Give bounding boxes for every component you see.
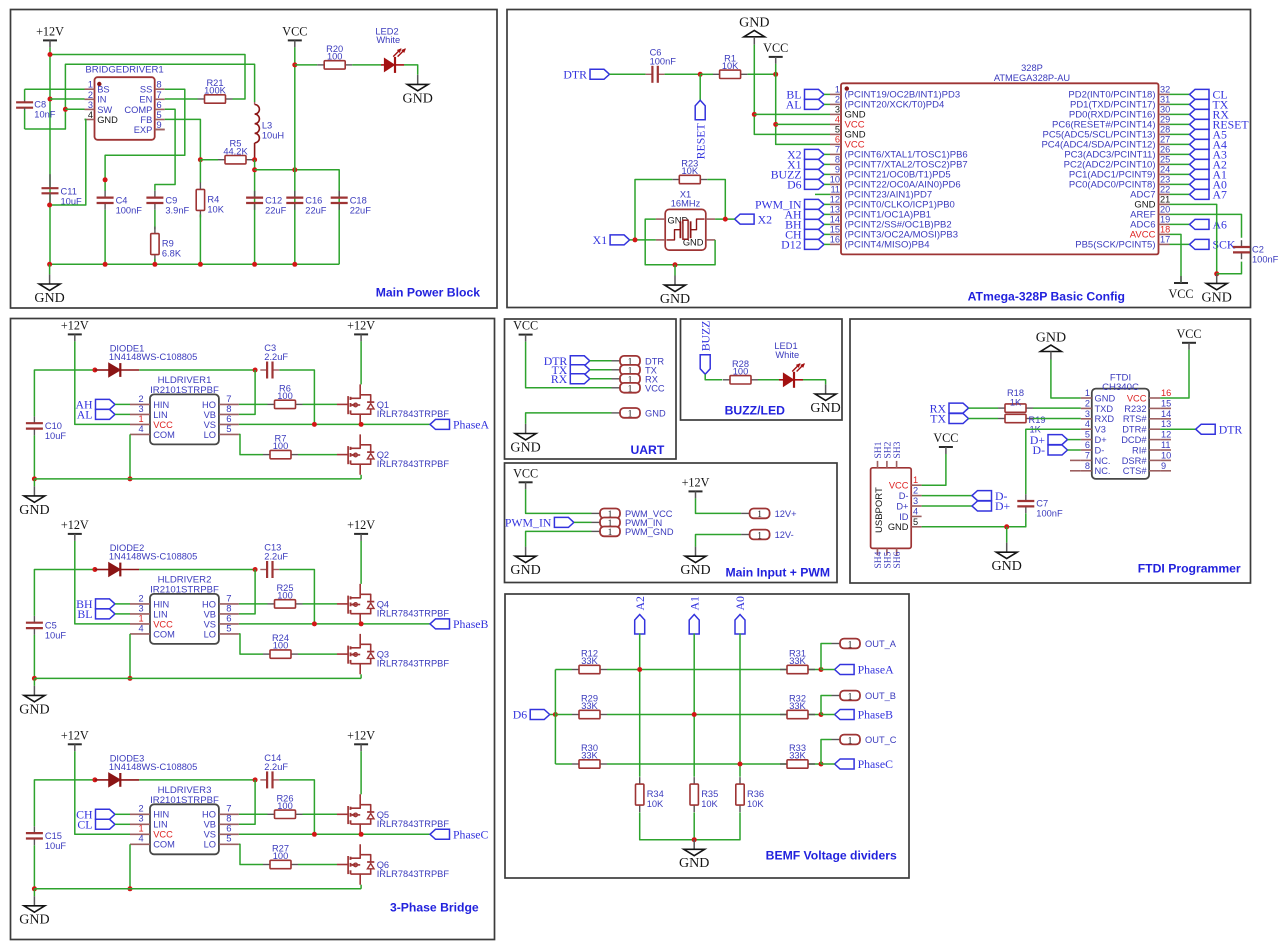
- svg-text:IR2101STRPBF: IR2101STRPBF: [150, 385, 219, 396]
- svg-text:14: 14: [1161, 409, 1171, 419]
- resistor R28: [723, 359, 758, 384]
- svg-text:6: 6: [835, 134, 840, 144]
- resistor R25: [268, 583, 303, 608]
- svg-text:LIN: LIN: [153, 410, 167, 420]
- svg-text:VS: VS: [204, 619, 216, 629]
- wire to OUT_C: [821, 740, 832, 765]
- svg-text:4: 4: [913, 506, 918, 516]
- wire to ground sym: [49, 264, 51, 274]
- svg-text:9: 9: [1161, 461, 1166, 471]
- +12V power right HLDRIVER1: [347, 318, 375, 341]
- svg-text:BUZZ: BUZZ: [698, 320, 712, 351]
- wire VCC rail: [294, 47, 296, 264]
- svg-text:IRLR7843TRPBF: IRLR7843TRPBF: [377, 459, 450, 469]
- wire Q6 source: [360, 885, 362, 889]
- svg-text:33K: 33K: [581, 751, 598, 761]
- wire GND to pin3: [754, 113, 830, 115]
- wire R9 to gnd rail: [154, 259, 156, 265]
- wire C10 bottom: [33, 435, 35, 479]
- wire CL to LIN: [115, 823, 130, 825]
- svg-text:X1: X1: [593, 233, 608, 247]
- pins HLDRIVER1 right: [202, 394, 239, 440]
- svg-text:IRLR7843TRPBF: IRLR7843TRPBF: [377, 609, 450, 619]
- pins BRIDGEDRIVER1 right: [124, 80, 164, 135]
- net flag A7 atmega: [1190, 188, 1228, 202]
- connector 12V-: [741, 530, 794, 542]
- net flag PWM_IN block6: [505, 516, 574, 530]
- svg-text:LIN: LIN: [153, 609, 167, 619]
- svg-text:5: 5: [226, 424, 231, 435]
- connector P_PWM_VCC: [592, 509, 673, 521]
- svg-text:COMP: COMP: [124, 105, 152, 115]
- wire +12V to VCC pin: [75, 341, 130, 424]
- junction: [819, 667, 824, 672]
- wire gnd to pin1: [1051, 360, 1081, 399]
- VCC power pwm: [513, 466, 538, 489]
- junction: [553, 712, 558, 717]
- svg-text:19: 19: [1160, 214, 1170, 224]
- junction: [253, 368, 258, 373]
- capacitor C5: [26, 616, 67, 641]
- wire pin to flag: [1170, 123, 1190, 125]
- wire TX to R19: [969, 418, 999, 420]
- svg-text:PhaseA: PhaseA: [858, 663, 895, 677]
- resistor R9: [151, 227, 182, 262]
- svg-text:FTDI Programmer: FTDI Programmer: [1138, 561, 1241, 575]
- svg-text:LO: LO: [204, 629, 216, 639]
- svg-text:VB: VB: [204, 410, 216, 420]
- VCC power block2 top: [763, 41, 788, 64]
- capacitor C7: [1017, 494, 1063, 519]
- svg-text:33K: 33K: [789, 656, 806, 666]
- wire bootstrap node: [139, 369, 255, 371]
- wire BUZZ to R28: [705, 374, 722, 380]
- junction: [252, 262, 257, 267]
- wire R20 to LED2: [352, 64, 381, 66]
- svg-text:BL: BL: [77, 607, 92, 621]
- wire gate Q4: [337, 603, 348, 605]
- +12V power block6: [682, 475, 710, 498]
- resistor R23: [672, 159, 707, 184]
- connector P_PWM_GND: [592, 527, 674, 539]
- net flag CL atmega: [1190, 88, 1228, 102]
- svg-text:1: 1: [88, 80, 93, 90]
- capacitor C18: [331, 191, 372, 216]
- junction: [198, 157, 203, 162]
- capacitor C9: [146, 191, 189, 216]
- svg-text:GND: GND: [888, 522, 909, 532]
- wire flag to pin: [824, 203, 830, 205]
- wire ground rail HLDRIVER3: [34, 888, 361, 890]
- junction: [692, 712, 697, 717]
- svg-text:White: White: [775, 350, 799, 360]
- net flag PhaseB: [430, 617, 489, 631]
- wire flag to pin: [824, 93, 830, 95]
- net flag AH: [75, 398, 115, 412]
- svg-text:PWM_IN: PWM_IN: [505, 516, 552, 530]
- svg-text:A7: A7: [1213, 188, 1228, 202]
- IC HLDRIVER3 IR2101STRPBF: [150, 785, 219, 854]
- wire +12V to Q1: [360, 341, 362, 384]
- svg-text:HIN: HIN: [153, 400, 169, 410]
- ground crystal: [660, 276, 690, 308]
- junction: [698, 72, 703, 77]
- svg-text:GND: GND: [1202, 290, 1232, 305]
- junction: [312, 832, 317, 837]
- svg-text:L3: L3: [262, 121, 272, 131]
- connector OUT_C: [832, 735, 897, 747]
- svg-text:DTR: DTR: [1219, 422, 1243, 436]
- svg-text:VCC: VCC: [1127, 393, 1147, 403]
- pins HLDRIVER2 right: [202, 593, 239, 639]
- wire to R12: [555, 669, 572, 671]
- svg-text:VB: VB: [204, 609, 216, 619]
- svg-text:A2: A2: [633, 596, 647, 611]
- wire pin to flag: [1170, 113, 1190, 115]
- wire flag to pin: [824, 243, 830, 245]
- wire R1 left: [700, 73, 713, 75]
- pin stub CH340C NC: [1070, 459, 1081, 461]
- resistor R21: [198, 78, 233, 103]
- svg-text:PB5(SCK/PCINT5): PB5(SCK/PCINT5): [1075, 240, 1155, 251]
- junction: [128, 476, 133, 481]
- wire C5 top: [34, 570, 95, 616]
- wire crystal to X2: [715, 218, 735, 220]
- capacitor C8: [16, 89, 56, 129]
- junction: [47, 203, 52, 208]
- pins HLDRIVER3 left: [130, 804, 175, 850]
- svg-text:10K: 10K: [682, 166, 699, 176]
- svg-text:VCC: VCC: [889, 481, 909, 491]
- svg-text:HO: HO: [202, 810, 216, 820]
- net flag D- ftdi: [1033, 443, 1068, 457]
- net flag A1: [687, 596, 701, 634]
- resistor R29: [572, 694, 607, 719]
- resistor R24: [263, 633, 298, 658]
- wire D6 vertical: [554, 670, 556, 765]
- wire ground rail HLDRIVER2: [34, 677, 361, 679]
- junction: [103, 262, 108, 267]
- wire R5 right: [253, 159, 255, 161]
- svg-text:24: 24: [1160, 164, 1170, 174]
- net flag BL: [77, 607, 115, 621]
- pins USBPORT shield SH1-SH3: [874, 441, 903, 467]
- wire VCC to R20: [295, 64, 317, 66]
- ground pwm left: [510, 547, 540, 579]
- net flag A0 atmega: [1190, 178, 1228, 192]
- wire phase row PhaseC: [239, 833, 430, 835]
- junction: [819, 712, 824, 717]
- svg-text:A6: A6: [1213, 218, 1228, 232]
- junction: [359, 621, 364, 626]
- wire C15 bottom: [33, 845, 35, 889]
- wire to R30: [555, 763, 572, 765]
- wire pin to flag: [1170, 163, 1190, 165]
- wire COM down: [129, 844, 131, 889]
- svg-text:4: 4: [1085, 419, 1090, 429]
- wire LED2 anode: [381, 64, 384, 66]
- svg-text:NC.: NC.: [1095, 466, 1111, 476]
- svg-text:PhaseC: PhaseC: [453, 828, 489, 842]
- svg-text:GND: GND: [34, 291, 64, 306]
- wire to gnd crystal: [674, 265, 676, 276]
- svg-text:5: 5: [1085, 430, 1090, 440]
- resistor R1: [713, 53, 748, 78]
- wire D6: [550, 714, 556, 716]
- ground bemf: [679, 840, 709, 872]
- svg-text:GND: GND: [645, 409, 666, 419]
- wire R7 to gate: [298, 454, 337, 456]
- svg-text:CL: CL: [77, 818, 92, 832]
- wire X1 to crystal: [630, 239, 656, 241]
- wire ground rail block1: [50, 263, 340, 265]
- svg-text:TX: TX: [930, 412, 946, 426]
- svg-text:29: 29: [1160, 114, 1170, 124]
- svg-text:AL: AL: [786, 98, 802, 112]
- wire to OUT_B: [821, 696, 832, 715]
- wire SW node to L3: [25, 64, 255, 129]
- svg-text:OUT_A: OUT_A: [865, 639, 897, 649]
- capacitor C2: [1233, 240, 1279, 265]
- junction: [819, 762, 824, 767]
- wire flag to pin: [824, 183, 830, 185]
- wire COM down: [129, 634, 131, 679]
- wire R29 row: [607, 714, 821, 716]
- svg-text:VCC: VCC: [153, 619, 173, 629]
- wire ground rail HLDRIVER1: [34, 478, 361, 480]
- resistor R30: [572, 743, 607, 768]
- svg-text:VCC: VCC: [153, 830, 173, 840]
- net flag D6 atmega: [787, 178, 824, 192]
- wire LED2 to gnd: [404, 65, 418, 75]
- ground HLDRIVER2: [19, 686, 49, 718]
- wire pin to flag: [1170, 243, 1190, 245]
- svg-text:3: 3: [138, 404, 143, 414]
- svg-text:IRLR7843TRPBF: IRLR7843TRPBF: [377, 659, 450, 669]
- resistor R26: [268, 793, 303, 818]
- wire R26 to gate: [303, 813, 338, 815]
- svg-text:SH6: SH6: [893, 551, 903, 568]
- wire to ground: [33, 479, 35, 486]
- svg-text:+12V: +12V: [61, 728, 89, 742]
- wire LO to R7: [239, 434, 263, 454]
- net flag X2 crystal: [735, 212, 773, 226]
- connector P_RX: [612, 374, 658, 386]
- transistor Q6: [348, 844, 449, 884]
- svg-text:25: 25: [1160, 154, 1170, 164]
- svg-text:15: 15: [1161, 398, 1171, 408]
- pin stub CH340C 14: [1160, 418, 1171, 420]
- block BUZZ/LED: [681, 319, 843, 420]
- svg-text:BEMF Voltage dividers: BEMF Voltage dividers: [766, 849, 897, 863]
- pin stub CH340C 12: [1160, 439, 1171, 441]
- svg-text:100: 100: [327, 52, 343, 62]
- svg-text:Main Input + PWM: Main Input + PWM: [725, 566, 830, 580]
- svg-text:10uF: 10uF: [45, 841, 67, 851]
- svg-text:1: 1: [757, 510, 762, 520]
- net flag PhaseA: [430, 418, 490, 432]
- resistor R7: [263, 434, 298, 459]
- svg-text:DTR#: DTR#: [1122, 425, 1147, 435]
- wire VCC to conn: [526, 342, 612, 388]
- svg-text:Main Power Block: Main Power Block: [376, 286, 481, 300]
- wire flag to pin: [824, 103, 830, 105]
- wire R23 left to X1: [635, 180, 672, 240]
- svg-text:GND: GND: [680, 563, 710, 578]
- wire HO to R25: [239, 603, 268, 605]
- net flag BUZZ: [698, 320, 712, 374]
- svg-text:8: 8: [1085, 461, 1090, 471]
- resistor R18: [998, 388, 1033, 412]
- wire to gnd ftdi: [1006, 527, 1008, 543]
- wire BL to LIN: [115, 613, 130, 615]
- svg-text:GND: GND: [1095, 393, 1116, 403]
- svg-text:33K: 33K: [581, 701, 598, 711]
- ground block2 bottom: [1202, 274, 1232, 306]
- svg-text:GND: GND: [19, 913, 49, 928]
- wire VCC to PWM_VCC: [526, 489, 592, 513]
- svg-text:1: 1: [848, 736, 853, 746]
- svg-text:C9: C9: [165, 195, 177, 205]
- wire DTR to C6: [610, 73, 646, 75]
- svg-text:18: 18: [1160, 224, 1170, 234]
- wire pin to flag: [1170, 143, 1190, 145]
- svg-text:ID: ID: [899, 512, 909, 522]
- connector P_DTR: [612, 356, 665, 368]
- capacitor C16: [286, 191, 327, 216]
- connector USBPORT: [871, 468, 912, 549]
- wire TX: [590, 369, 612, 371]
- wire R30 row: [607, 763, 821, 765]
- wire gate Q3: [337, 653, 348, 655]
- pins HLDRIVER1 left: [130, 394, 175, 440]
- svg-text:VCC: VCC: [645, 383, 665, 393]
- svg-text:1: 1: [835, 84, 840, 94]
- svg-text:VCC: VCC: [153, 420, 173, 430]
- svg-text:D12: D12: [781, 238, 801, 252]
- wire SS to C4: [105, 89, 185, 191]
- svg-text:VCC: VCC: [1176, 327, 1201, 341]
- svg-text:LIN: LIN: [153, 820, 167, 830]
- net flag TX ftdi: [930, 412, 968, 426]
- wire HO to R26: [239, 813, 268, 815]
- wire AH to HIN: [115, 403, 130, 405]
- wire VB to bootstrap: [239, 570, 255, 614]
- svg-text:GND: GND: [679, 856, 709, 871]
- svg-text:100nF: 100nF: [650, 56, 677, 66]
- svg-text:GND: GND: [403, 91, 433, 106]
- svg-text:2: 2: [138, 593, 143, 603]
- net flag TX uart: [552, 363, 590, 377]
- svg-text:5: 5: [226, 834, 231, 845]
- capacitor C4: [97, 191, 143, 216]
- connector P_PWM_IN: [592, 518, 663, 530]
- wire R23 right to X2: [707, 180, 725, 220]
- capacitor C3: [260, 343, 288, 379]
- net flag X2 atmega: [787, 148, 824, 162]
- net flag PhaseB bemf: [835, 708, 894, 722]
- net flag A2: [633, 596, 647, 634]
- svg-text:HIN: HIN: [153, 599, 169, 609]
- ground top block2: [739, 16, 769, 45]
- svg-text:C5: C5: [45, 620, 57, 630]
- wire BH to HIN: [115, 603, 130, 605]
- svg-text:3: 3: [88, 100, 93, 110]
- wire AREF to C2: [1170, 214, 1242, 237]
- +12V power right HLDRIVER3: [347, 728, 375, 751]
- svg-text:4: 4: [138, 623, 143, 633]
- svg-text:10uH: 10uH: [262, 131, 284, 141]
- svg-text:20: 20: [1160, 204, 1170, 214]
- svg-text:D6: D6: [513, 708, 528, 722]
- svg-text:IRLR7843TRPBF: IRLR7843TRPBF: [377, 819, 450, 829]
- wire conn GND: [526, 413, 612, 424]
- net flag X1 crystal: [593, 233, 630, 247]
- IC HLDRIVER1 IR2101STRPBF: [150, 375, 219, 444]
- wire SW pin3: [65, 108, 84, 110]
- junction: [252, 157, 257, 162]
- wire R6 to gate: [303, 403, 338, 405]
- resistor R32: [780, 694, 815, 719]
- pins BRIDGEDRIVER1 left: [85, 80, 119, 125]
- svg-text:GND: GND: [97, 115, 118, 125]
- wire R28 to LED1: [758, 379, 779, 381]
- resistor R35: [690, 777, 719, 812]
- wire to PhaseB flag: [821, 714, 835, 716]
- wire bootstrap node: [139, 569, 255, 571]
- svg-text:GND: GND: [19, 702, 49, 717]
- wire BS pin1 to C8: [25, 88, 85, 90]
- wire to PhaseA flag: [821, 669, 835, 671]
- svg-text:10uF: 10uF: [45, 431, 67, 441]
- net flag A1 atmega: [1190, 168, 1228, 182]
- svg-text:28: 28: [1160, 124, 1170, 134]
- svg-text:4: 4: [138, 424, 143, 434]
- wire to ground: [33, 678, 35, 685]
- svg-text:CTS#: CTS#: [1123, 466, 1148, 476]
- svg-text:+12V: +12V: [682, 475, 710, 489]
- svg-text:16: 16: [1161, 388, 1171, 398]
- junction: [92, 567, 97, 572]
- wire R35 bottom: [693, 812, 695, 839]
- junction: [773, 72, 778, 77]
- +12V power left HLDRIVER1: [61, 318, 89, 341]
- svg-text:C16: C16: [305, 195, 322, 205]
- svg-text:2: 2: [138, 394, 143, 404]
- IC U1 ATMEGA328P-AU: [841, 63, 1159, 254]
- wire AVCC to VCC: [1170, 234, 1182, 283]
- svg-text:3: 3: [138, 814, 143, 824]
- svg-text:10K: 10K: [722, 61, 739, 71]
- junction: [359, 422, 364, 427]
- svg-text:32: 32: [1160, 84, 1170, 94]
- svg-text:R36: R36: [747, 789, 764, 799]
- svg-text:1N4148WS-C108805: 1N4148WS-C108805: [109, 762, 197, 772]
- wire 12V+ row: [696, 498, 742, 513]
- +12V power left HLDRIVER3: [61, 728, 89, 751]
- wire C6 to R1: [665, 73, 701, 75]
- svg-text:10K: 10K: [207, 204, 224, 214]
- svg-text:2.2uF: 2.2uF: [264, 352, 288, 362]
- ground uart: [510, 424, 540, 456]
- VCC power usb: [933, 431, 958, 454]
- net flag BUZZ atmega: [771, 168, 824, 182]
- wire AL to LIN: [115, 413, 130, 415]
- wire pin to flag: [1170, 183, 1190, 185]
- svg-text:RI#: RI#: [1132, 445, 1147, 455]
- junction: [48, 52, 53, 57]
- svg-text:D+: D+: [1095, 435, 1107, 445]
